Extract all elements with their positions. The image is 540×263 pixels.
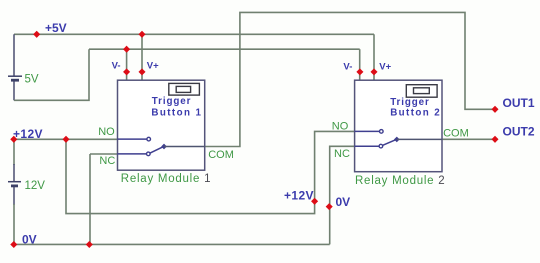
wire V- rail drop to module 2 V- [359, 49, 361, 80]
svg-text:V+: V+ [147, 61, 159, 72]
wire +5V rail drop to module 2 V+ [373, 34, 375, 80]
svg-text:V+: V+ [379, 62, 391, 73]
junction dot 0V rail [86, 241, 93, 248]
wire +12V branch to module 2 NO [66, 131, 355, 213]
module 1 NC contact [118, 153, 147, 155]
pin dot V- module 2 [356, 68, 363, 75]
wire module 1 NC horizontal [90, 153, 118, 155]
wire module 1 COM to OUT1 [205, 12, 495, 146]
svg-text:COM: COM [443, 127, 469, 139]
svg-text:COM: COM [208, 149, 234, 161]
module 1 NO contact [118, 138, 147, 140]
svg-text:0V: 0V [22, 232, 37, 246]
node dot +5V [33, 31, 40, 38]
wire battery BAT2 bottom lead [13, 187, 15, 205]
wire 0V riser to module 2 NC [330, 146, 355, 244]
node dot +12V left [10, 136, 17, 143]
node dot V+ rail module 1 [138, 31, 145, 38]
svg-text:Relay Module 1: Relay Module 1 [121, 173, 211, 185]
svg-text:+5V: +5V [45, 21, 67, 35]
svg-text:Button 2: Button 2 [390, 108, 441, 119]
svg-text:+12V: +12V [284, 189, 314, 203]
battery BAT2 12V symbol [8, 182, 21, 186]
wire +5V rail from battery BAT1 plus to V+ pins [14, 33, 374, 35]
junction dot +12V branch [62, 136, 69, 143]
svg-text:V-: V- [343, 62, 352, 73]
relay module 2 box [355, 80, 442, 172]
svg-text:NC: NC [99, 155, 115, 167]
pin dot V- module 1 [123, 68, 130, 75]
node dot OUT1 [491, 106, 498, 113]
node dot 0V left [10, 241, 17, 248]
svg-text:Button 1: Button 1 [151, 107, 202, 118]
svg-text:Trigger: Trigger [152, 96, 192, 107]
wire 0V bottom rail [14, 243, 330, 245]
svg-text:+12V: +12V [13, 127, 43, 141]
svg-text:OUT1: OUT1 [503, 96, 535, 110]
module 1 switch lever [150, 147, 163, 153]
svg-text:Relay Module 2: Relay Module 2 [355, 175, 445, 187]
wire battery BAT1 bottom lead [13, 81, 15, 100]
svg-text:OUT2: OUT2 [503, 125, 535, 139]
trigger button 1 icon [169, 83, 200, 95]
node dot OUT2 [491, 136, 498, 143]
wire battery BAT2 top lead [13, 139, 15, 165]
trigger button 2 icon [406, 85, 437, 98]
node dot V- rail module 1 [123, 46, 130, 53]
module 2 NC contact [355, 145, 380, 147]
wire +12V rail to module 1 NO [14, 138, 118, 140]
module 2 switch lever [382, 140, 395, 146]
battery BAT1 5V symbol [8, 76, 22, 80]
svg-text:NC: NC [334, 148, 350, 160]
wire module 1 NC drop to 0V rail [89, 154, 91, 244]
pin dot V+ module 1 [138, 68, 145, 75]
wire module 1 V- riser [126, 49, 128, 80]
wire module 1 V+ riser [141, 34, 143, 80]
svg-text:NO: NO [98, 126, 115, 138]
svg-text:V-: V- [112, 61, 121, 72]
module 2 COM inner lead [397, 138, 442, 140]
junction dots (red diamonds) [10, 31, 498, 248]
svg-text:5V: 5V [25, 74, 39, 86]
pin dot V+ module 2 [370, 68, 377, 75]
wire V- rail [89, 48, 360, 50]
wire 5V negative run to V- rail [14, 49, 89, 100]
svg-text:NO: NO [332, 120, 349, 132]
node dot 0V mid [326, 203, 333, 210]
module 1 COM inner lead [164, 146, 205, 148]
module 2 NO contact [355, 130, 380, 132]
svg-text:12V: 12V [25, 180, 46, 192]
wire module 2 COM to OUT2 [442, 138, 495, 140]
svg-text:0V: 0V [336, 195, 351, 209]
node dot +12V mid [311, 198, 318, 205]
svg-text:Trigger: Trigger [390, 97, 430, 108]
relay module 1 box [118, 80, 205, 170]
wire battery BAT1 top lead [13, 34, 15, 76]
